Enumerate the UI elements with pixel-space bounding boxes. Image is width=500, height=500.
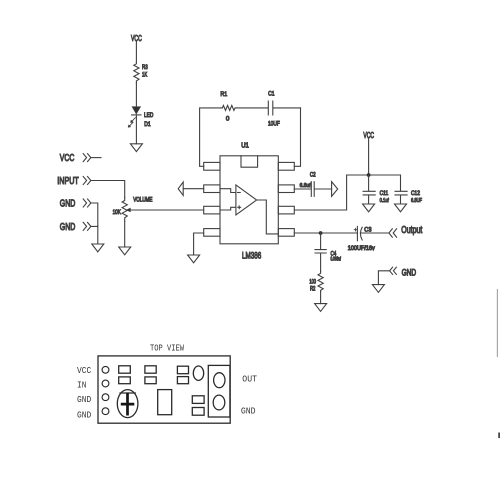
cap round: [193, 366, 203, 380]
ground (GND flag): [372, 285, 384, 293]
ground (C12): [395, 204, 407, 212]
wire (pin 5 output rail): [294, 232, 357, 234]
svg-text:100UF/16v: 100UF/16v: [348, 246, 375, 252]
svg-text:U1: U1: [241, 140, 249, 149]
connector Output: [389, 225, 423, 237]
capacitor C1: [237, 91, 301, 128]
svg-text:INPUT: INPUT: [57, 176, 79, 187]
wire: [294, 138, 400, 210]
ground (C11): [363, 204, 375, 212]
wire: [183, 188, 204, 190]
svg-text:C2: C2: [310, 172, 316, 179]
pad hole GND: [102, 394, 109, 401]
svg-text:GND: GND: [77, 410, 91, 420]
wire (wiper to pin 3): [131, 209, 204, 211]
pin 6: [278, 206, 294, 214]
smd pair C2: [177, 377, 188, 384]
svg-text:0.068uf: 0.068uf: [331, 256, 342, 262]
connector VCC (left): [60, 153, 101, 164]
smd pair A1: [119, 366, 131, 373]
wire: [91, 203, 98, 226]
svg-text:VCC: VCC: [60, 153, 75, 164]
pad hole IN: [102, 380, 109, 387]
capacitor C12: [395, 175, 422, 204]
power flag VCC (right): [363, 130, 374, 140]
capacitor C4: [315, 233, 341, 271]
svg-text:R3: R3: [142, 64, 148, 71]
potentiometer cross: [121, 393, 135, 416]
connector GND (left 1): [60, 199, 91, 210]
svg-text:10K: 10K: [113, 209, 122, 216]
connector GND (right): [390, 267, 417, 277]
pin 2: [204, 185, 220, 193]
op-amp U1 LM386: [220, 140, 278, 260]
svg-text:0: 0: [226, 116, 230, 123]
board layout TOP VIEW: [77, 343, 257, 424]
LED D1: [128, 107, 153, 128]
node (vcc junction): [367, 173, 371, 177]
pin 7: [278, 185, 294, 193]
pin 1: [204, 162, 220, 170]
svg-text:C12: C12: [411, 190, 420, 197]
wire: [135, 83, 137, 107]
potentiometer slot: [119, 392, 135, 394]
chip IC: [158, 390, 172, 415]
svg-text:0.1uf: 0.1uf: [380, 198, 390, 204]
svg-text:VCC: VCC: [77, 366, 91, 376]
ground (R2): [315, 304, 327, 312]
svg-text:LM386: LM386: [242, 251, 261, 261]
wire: [135, 115, 137, 144]
capacitor C11: [363, 175, 389, 204]
smd right 1: [192, 396, 204, 404]
connector GND (left 2): [60, 222, 91, 233]
connector INPUT: [57, 176, 91, 187]
svg-text:GND: GND: [60, 199, 76, 210]
svg-text:6.8uf: 6.8uf: [300, 183, 311, 189]
pin 4: [204, 229, 220, 237]
wire: [124, 222, 126, 248]
svg-text:D1: D1: [144, 121, 151, 128]
scan artifact line (right edge): [496, 289, 498, 357]
output connector body: [208, 365, 230, 417]
pin 5: [278, 229, 294, 237]
svg-text:R2: R2: [310, 287, 316, 293]
smd pair A2: [119, 377, 131, 384]
output connector hole OUT: [214, 373, 225, 388]
svg-text:TOP VIEW: TOP VIEW: [150, 343, 184, 354]
potentiometer body: [117, 390, 138, 418]
ground (GND inputs): [92, 244, 104, 252]
wire: [320, 292, 322, 304]
pin 3: [204, 206, 220, 214]
svg-text:100: 100: [309, 280, 316, 286]
svg-text:1K: 1K: [142, 72, 147, 79]
pad hole GND2: [102, 408, 109, 415]
resistor R3: [134, 62, 148, 83]
connector arrow (C2 out): [332, 182, 338, 197]
svg-text:Output: Output: [401, 225, 422, 236]
wire: [135, 42, 137, 63]
board outline: [98, 356, 230, 423]
svg-text:C1: C1: [268, 91, 275, 98]
output connector hole GND: [213, 395, 225, 410]
pin 8: [278, 162, 294, 170]
svg-text:R1: R1: [220, 91, 227, 98]
svg-text:OUT: OUT: [242, 375, 257, 385]
svg-text:VOLUME: VOLUME: [133, 196, 152, 203]
wire: [294, 108, 300, 166]
svg-text:GND: GND: [60, 222, 76, 233]
svg-text:IN: IN: [77, 380, 86, 390]
wire: [200, 108, 221, 166]
node (output junction): [319, 231, 323, 235]
smd pair B1: [145, 366, 156, 373]
svg-text:GND: GND: [77, 395, 91, 405]
svg-text:GND: GND: [241, 407, 256, 417]
scan artifact mark (right edge): [498, 433, 500, 439]
svg-text:C3: C3: [364, 228, 372, 234]
svg-text:GND: GND: [402, 268, 417, 278]
pad hole VCC: [102, 366, 109, 373]
resistor R2: [309, 271, 323, 292]
potentiometer VOLUME 10K: [113, 196, 153, 221]
smd right 2: [192, 408, 204, 416]
ground (pin 4): [188, 255, 200, 263]
ground (potentiometer): [119, 247, 131, 255]
capacitor C3 (electrolytic): [348, 226, 389, 252]
power flag VCC (top): [131, 33, 142, 43]
svg-text:10UF: 10UF: [268, 121, 280, 128]
svg-text:6.8UF: 6.8UF: [411, 198, 422, 204]
resistor R1: [220, 91, 236, 123]
svg-text:LED: LED: [144, 112, 154, 119]
connector arrow (pin 2 input): [178, 182, 183, 195]
smd pair B2: [145, 377, 156, 384]
wire: [91, 181, 125, 198]
ground (LED): [130, 144, 142, 152]
capacitor C2: [294, 172, 331, 197]
wire (pin 4 to ground): [194, 233, 204, 255]
wire: [378, 271, 389, 285]
wire: [91, 226, 98, 244]
svg-text:C11: C11: [380, 190, 389, 197]
smd pair C1: [177, 366, 188, 374]
